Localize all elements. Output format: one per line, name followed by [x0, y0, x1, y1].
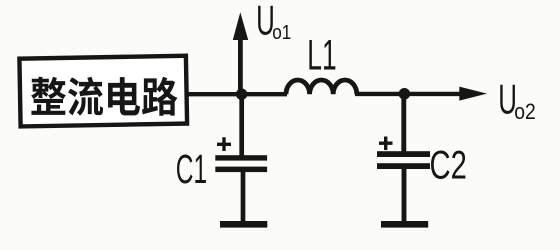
svg-text:o1: o1 — [272, 21, 291, 44]
Uo2 arrowhead — [459, 87, 487, 101]
node B (junction dot) — [399, 88, 411, 100]
wire: inductor to node B (arrow shaft) — [355, 92, 461, 96]
capacitor C1 bottom plate — [215, 167, 267, 173]
wire: Uo1 arrow shaft (up from node A) — [238, 36, 243, 94]
ground bar (left) — [220, 221, 267, 228]
wire: C1 to ground bar — [241, 172, 246, 222]
capacitor C1 plus sign — [217, 137, 231, 151]
rectifier block (box) — [19, 56, 187, 127]
label Uo2 — [498, 78, 535, 125]
node A (junction dot) — [236, 89, 247, 100]
capacitor C2 bottom plate — [377, 163, 430, 169]
inductor L1 — [286, 80, 357, 94]
wire: node A down to C1 — [239, 94, 244, 156]
capacitor C1 top plate — [215, 155, 267, 160]
ground bar (right) — [381, 221, 428, 228]
label Uo1 — [256, 0, 291, 44]
capacitor C2 top plate — [377, 151, 430, 157]
svg-text:o2: o2 — [514, 100, 536, 124]
wire: C2 to ground bar — [402, 169, 407, 222]
capacitor C2 plus sign — [379, 137, 393, 151]
wire: box to node A — [188, 92, 287, 96]
rectifier block label 整流电路 — [31, 77, 178, 116]
svg-text:C1: C1 — [176, 148, 207, 193]
svg-text:C2: C2 — [430, 143, 467, 188]
wire: node B down to C2 — [401, 94, 406, 152]
Uo1 arrowhead — [233, 12, 248, 40]
svg-text:L1: L1 — [307, 32, 336, 79]
